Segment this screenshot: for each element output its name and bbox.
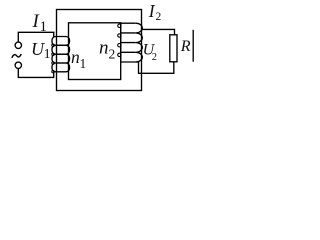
terminal top-left <box>15 42 21 48</box>
svg-text:n: n <box>99 38 109 59</box>
primary winding n1 left curls <box>52 44 55 47</box>
cropped element line at right edge <box>192 30 194 62</box>
wire bottom-left <box>18 68 53 77</box>
wire top-right to resistor <box>142 29 175 34</box>
primary winding n1 loop 1 <box>52 37 70 46</box>
secondary winding n2 turn lines <box>121 23 139 62</box>
svg-text:2: 2 <box>152 52 157 63</box>
secondary winding n2 right arcs <box>136 23 143 62</box>
core inner rectangle <box>69 23 121 80</box>
resistor R box <box>170 35 177 62</box>
svg-text:1: 1 <box>44 47 51 62</box>
wire bottom-right from winding <box>139 62 174 74</box>
svg-text:1: 1 <box>40 19 48 35</box>
primary winding n1 loop 2 <box>52 45 70 54</box>
primary winding n1 loop 3 <box>52 54 70 63</box>
svg-text:R: R <box>180 38 191 55</box>
AC source tilde <box>12 54 21 58</box>
svg-text:1: 1 <box>80 56 87 71</box>
secondary winding n2 left curls <box>118 24 121 27</box>
secondary winding n2 rail <box>120 23 122 62</box>
terminal bottom-left <box>15 62 21 68</box>
svg-text:2: 2 <box>109 47 116 62</box>
svg-text:2: 2 <box>156 11 162 23</box>
primary winding n1 loop 4 <box>52 63 70 72</box>
core outer rectangle <box>57 10 142 91</box>
wire top-left <box>18 32 54 42</box>
